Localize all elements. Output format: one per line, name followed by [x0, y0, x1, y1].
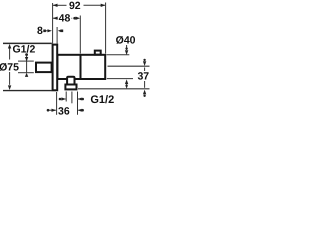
svg-text:Ø40: Ø40: [116, 35, 136, 47]
svg-text:G1/2: G1/2: [90, 94, 114, 106]
svg-text:Ø75: Ø75: [0, 62, 19, 74]
svg-text:G1/2: G1/2: [13, 43, 36, 55]
svg-text:92: 92: [69, 0, 81, 12]
svg-text:36: 36: [58, 105, 70, 117]
svg-text:37: 37: [137, 71, 149, 83]
svg-text:48: 48: [59, 13, 71, 25]
svg-text:8: 8: [37, 25, 43, 37]
